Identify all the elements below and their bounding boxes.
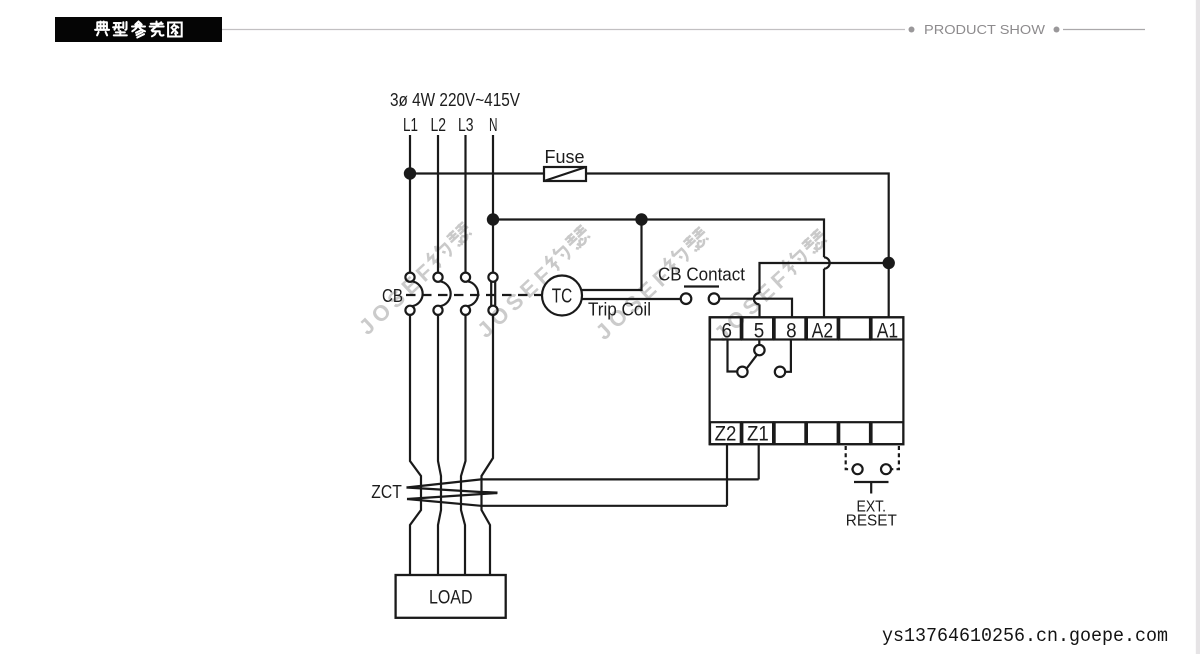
reset button bar: [854, 482, 889, 494]
svg-text:CB: CB: [382, 285, 403, 306]
bullet left: [909, 27, 915, 33]
wire TC bottom to contact: [582, 298, 681, 300]
wire TC tap drop: [581, 220, 641, 291]
wire ZCT bottom to Z2: [407, 499, 727, 506]
CB pole L2: [433, 273, 442, 282]
wire hop over A1 rail: [824, 257, 830, 268]
watermark 1: [354, 220, 479, 339]
svg-text:CB Contact: CB Contact: [658, 264, 745, 285]
svg-text:Fuse: Fuse: [545, 146, 585, 167]
header black box: [55, 17, 222, 42]
char 型: [113, 22, 127, 35]
svg-text:5: 5: [754, 319, 765, 342]
internal contact: 6 leg: [728, 340, 737, 372]
contact circle 5: [754, 345, 764, 355]
conductor L2 through ZCT: [438, 315, 441, 575]
wire L2 upper: [437, 135, 439, 273]
char 参: [132, 22, 145, 38]
conductor L1 through ZCT: [410, 315, 421, 575]
watermark 2: [472, 223, 597, 342]
char 典: [95, 22, 109, 36]
CB contact right pin: [709, 293, 720, 304]
wire contact to terminal 8: [719, 299, 792, 318]
terminal blank b6: [872, 422, 904, 444]
contact pivot circle 6: [737, 367, 747, 377]
svg-text:RESET: RESET: [846, 513, 898, 530]
LOAD box: [396, 575, 506, 618]
svg-text:Trip Coil: Trip Coil: [588, 299, 651, 320]
ext reset dashed left: [846, 446, 852, 469]
wire A2 drop: [823, 269, 825, 318]
ZCT cross lower: [407, 493, 497, 499]
wire Z2 drop: [726, 444, 728, 506]
terminal A2: [807, 317, 838, 339]
conductor N through ZCT: [482, 315, 494, 575]
relay bottom terminal row: [710, 422, 903, 446]
terminal blank top: [839, 317, 870, 339]
wire into terminal 5: [758, 304, 760, 317]
contact blade: [747, 355, 757, 368]
ZCT cross upper: [407, 488, 498, 494]
svg-text:ZCT: ZCT: [371, 481, 402, 502]
wire L3 upper: [464, 135, 466, 273]
svg-text:A2: A2: [812, 319, 834, 342]
CB contact left pin: [681, 293, 692, 304]
svg-text:L2: L2: [431, 114, 447, 135]
contact underline: [684, 285, 719, 287]
terminal Z1: [742, 422, 773, 444]
svg-text:PRODUCT SHOW: PRODUCT SHOW: [924, 22, 1046, 37]
svg-text:8: 8: [786, 319, 797, 342]
node junction L1-fuse: [404, 167, 416, 179]
right rule line: [1063, 29, 1145, 31]
wire rail to terminal5: [760, 263, 884, 293]
watermark 4: [709, 227, 834, 346]
CB linkage dashed: [406, 294, 542, 296]
svg-text:LOAD: LOAD: [429, 588, 473, 609]
terminal 5: [742, 317, 773, 339]
conductor L3 through ZCT: [461, 315, 466, 575]
wire hop over contact wire: [754, 293, 760, 304]
node junction TC tap: [635, 213, 647, 225]
terminal 6: [710, 317, 741, 339]
header title 典型参考图 (drawn glyphs): [95, 22, 182, 38]
header rule line: [222, 29, 905, 31]
relay box outline: [710, 317, 904, 444]
node junction A1: [883, 257, 895, 269]
svg-text:A1: A1: [877, 319, 899, 342]
terminal 8: [775, 317, 806, 339]
terminal A1: [872, 317, 904, 339]
svg-text:Z2: Z2: [715, 423, 737, 446]
svg-text:Z1: Z1: [747, 423, 769, 446]
contact circle 8 side: [775, 367, 785, 377]
CB pole N double bar: [488, 273, 497, 282]
terminal blank b4: [807, 422, 838, 444]
watermark 3: [591, 225, 716, 344]
svg-text:L1: L1: [403, 114, 418, 135]
wire N to A2: [493, 220, 824, 258]
wire L1 upper: [409, 135, 411, 273]
trip coil TC: [542, 276, 582, 316]
relay top terminal row: [710, 317, 903, 342]
CB pole L1: [405, 273, 414, 282]
wire ZCT top to Z1: [407, 479, 759, 487]
wire fuse to A1: [586, 174, 889, 318]
ext reset dashed right: [892, 446, 899, 469]
node junction N-control: [487, 213, 499, 225]
char 考: [150, 22, 164, 37]
svg-text:TC: TC: [552, 286, 573, 308]
reset button right pin: [881, 464, 891, 474]
right edge gray strip: [1196, 0, 1200, 654]
terminal Z2: [710, 422, 741, 444]
wire L1 to fuse: [410, 172, 544, 174]
char 图: [168, 23, 182, 37]
svg-text:N: N: [489, 114, 498, 135]
svg-text:3ø 4W 220V~415V: 3ø 4W 220V~415V: [390, 89, 521, 110]
svg-text:L3: L3: [458, 114, 474, 135]
fuse F1: [544, 167, 586, 181]
wire Z1 drop: [758, 444, 760, 479]
svg-text:ys13764610256.cn.goepe.com: ys13764610256.cn.goepe.com: [882, 625, 1168, 647]
wire N upper: [492, 135, 494, 273]
svg-text:6: 6: [722, 319, 733, 342]
terminal blank b3: [775, 422, 806, 444]
ZCT right tip: [482, 491, 498, 494]
CB pole L3: [461, 273, 470, 282]
reset button left pin: [853, 464, 863, 474]
terminal blank b5: [839, 422, 870, 444]
bullet right: [1054, 27, 1060, 33]
